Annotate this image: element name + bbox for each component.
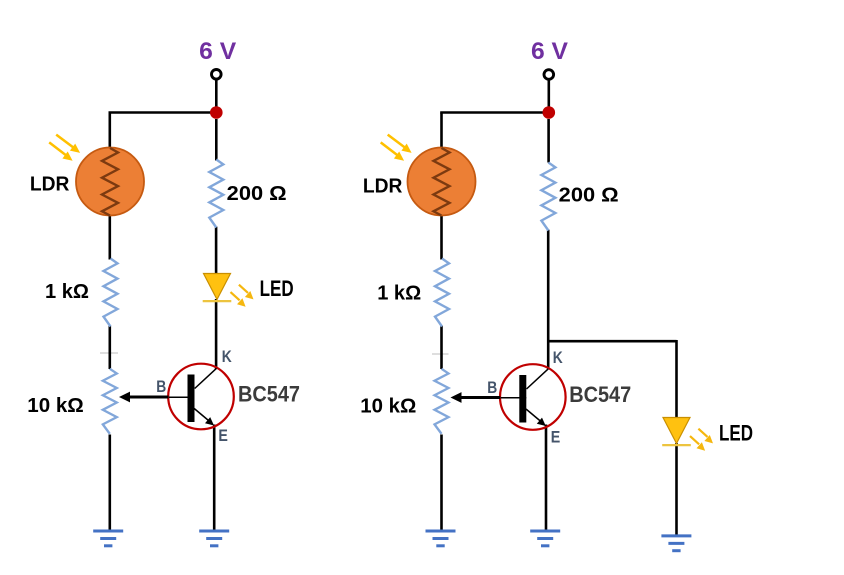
- svg-text:BC547: BC547: [569, 382, 631, 407]
- svg-text:B: B: [487, 379, 497, 397]
- svg-text:1 kΩ: 1 kΩ: [45, 280, 89, 303]
- svg-text:6 V: 6 V: [531, 38, 568, 65]
- svg-text:10 kΩ: 10 kΩ: [360, 394, 416, 417]
- svg-text:6 V: 6 V: [199, 38, 236, 65]
- svg-text:K: K: [222, 348, 232, 366]
- svg-text:LDR: LDR: [30, 172, 70, 195]
- svg-text:200 Ω: 200 Ω: [227, 182, 287, 205]
- svg-text:E: E: [218, 427, 228, 445]
- svg-text:E: E: [551, 429, 561, 447]
- svg-text:LDR: LDR: [363, 175, 403, 198]
- svg-text:K: K: [553, 349, 563, 367]
- svg-text:LED: LED: [260, 276, 294, 301]
- svg-text:1 kΩ: 1 kΩ: [377, 281, 421, 304]
- svg-text:LED: LED: [719, 420, 753, 445]
- svg-text:200 Ω: 200 Ω: [559, 183, 619, 206]
- svg-text:BC547: BC547: [238, 381, 300, 406]
- svg-text:B: B: [156, 378, 166, 396]
- svg-text:10 kΩ: 10 kΩ: [27, 394, 84, 417]
